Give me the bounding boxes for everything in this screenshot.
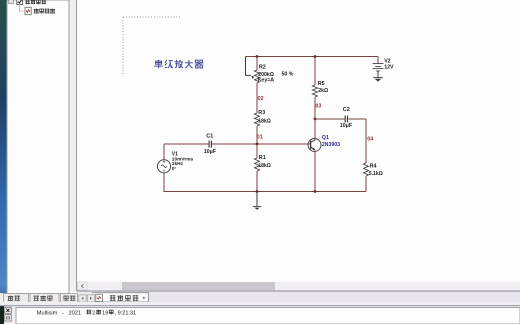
node 02 label [258,96,264,102]
svg-text:18kΩ: 18kΩ [258,163,270,169]
svg-text:C1: C1 [206,134,213,140]
ground V2 [373,78,383,82]
svg-text:19: 19 [102,311,108,317]
ui tree panel [7,0,77,294]
svg-text:2: 2 [92,311,95,317]
svg-text:50 %: 50 % [282,72,294,78]
ui toolbox tabs [0,293,95,302]
svg-text:04: 04 [367,136,373,142]
svg-text:18kΩ: 18kΩ [258,118,270,124]
svg-text:R3: R3 [258,110,265,116]
svg-text:, 9:21:31: , 9:21:31 [115,311,137,317]
ui tree expander [9,0,14,4]
junction emitter [314,190,317,193]
ui canvas h-scrollbar [77,282,520,291]
C2 labels [340,107,352,129]
svg-text:10μF: 10μF [340,123,352,129]
svg-text:03: 03 [315,104,321,110]
junction collector-C2 [314,118,317,121]
svg-text:02: 02 [258,96,264,102]
V2 labels [384,59,394,71]
V1 labels [172,151,194,172]
Q1 labels [322,135,340,148]
node 04 label [367,136,373,142]
svg-text:Multisim - 2021: Multisim - 2021 [37,311,81,317]
svg-text:2N3903: 2N3903 [322,142,340,148]
R3 labels [258,110,270,125]
ui desktop strip [0,0,7,324]
svg-text:10μF: 10μF [204,149,216,155]
junction ground [256,190,259,193]
ui spreadsheet pane [0,302,520,324]
wire base rail [212,143,311,145]
title text [154,60,203,69]
svg-text:R5: R5 [318,81,325,87]
capacitor C1 [164,141,211,148]
ui sheet tab label [110,295,146,303]
svg-text:2kΩ: 2kΩ [318,88,328,94]
ui status text [37,310,136,317]
junction base-R3R1 [256,143,259,146]
wire bottom rail [164,191,367,193]
wire R2 wiper bracket [246,57,251,76]
resistor R5 [313,57,318,139]
resistor R1 [255,144,260,192]
R5 labels [318,81,328,94]
svg-text:Q1: Q1 [322,135,329,141]
R4 labels [369,163,383,177]
R2 labels [258,64,294,83]
svg-text:Key=A: Key=A [258,78,275,84]
sheet border corner (dotted) [123,17,181,76]
junction R2 top [256,55,259,58]
ui tree label row1 [25,0,46,4]
C1 labels [204,134,216,156]
wire top rail [246,56,379,58]
svg-text:12V: 12V [384,65,394,71]
ui tree label row2 [34,9,55,14]
svg-text:R1: R1 [259,155,266,161]
ground [253,192,261,210]
svg-text:R4: R4 [370,163,377,169]
svg-text:5.1kΩ: 5.1kΩ [369,171,383,177]
ac source V1 [157,144,170,192]
ui tree connector [20,4,24,12]
junction R5 top [314,55,317,58]
node 03 label [315,104,321,110]
capacitor C2 [315,116,366,123]
node 01 label [257,135,263,141]
ui tree page icon [25,7,31,14]
svg-text:01: 01 [257,135,263,141]
svg-text:C2: C2 [343,107,350,113]
transistor Q1 [308,119,321,192]
battery V2 [373,57,384,78]
potentiometer R2 [251,57,259,114]
resistor R3 [255,113,260,144]
resistor R4 [364,119,369,192]
svg-text:0°: 0° [172,166,177,172]
ui sheet tab bar [77,292,520,303]
R1 labels [258,155,270,169]
ui tree checkbox [17,0,23,5]
svg-text:R2: R2 [259,64,266,70]
